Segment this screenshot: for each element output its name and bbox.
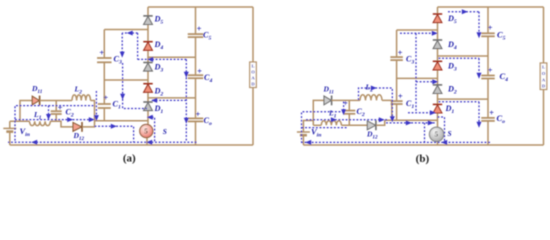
svg-text:D3: D3 <box>447 61 457 72</box>
current path C2 drop (a) <box>46 106 51 120</box>
wire D4-D3 link (b) <box>437 49 439 62</box>
svg-text:C1: C1 <box>406 99 414 110</box>
diode D5 (a) <box>143 14 163 25</box>
wire battery bottom lead (a) <box>9 132 11 145</box>
wire right rail upper (b) <box>543 7 545 63</box>
inductor L2 (b) <box>360 83 382 101</box>
wire battery top lead (b) <box>303 121 313 133</box>
current path C4 top tap (b) <box>439 57 480 59</box>
current path C4 side (b) <box>477 58 482 79</box>
wire L1 rail left (b) <box>313 124 321 126</box>
capacitor C5 (b) <box>481 23 505 42</box>
wire C0 bottom lead (a) <box>195 121 197 145</box>
diode D3 (a) <box>143 63 163 74</box>
transistor S (a) <box>140 124 167 137</box>
svg-text:L2: L2 <box>74 85 83 96</box>
current path C5 side (b) <box>477 12 482 39</box>
current path C2 drop (b) <box>341 102 346 116</box>
wire D3-D2 link (a) <box>147 71 149 84</box>
svg-text:5: 5 <box>144 126 148 135</box>
wire C5-C4 link (a) <box>195 37 197 75</box>
svg-text:D5: D5 <box>447 14 457 25</box>
wire C3 bottom tap (b) <box>397 77 438 79</box>
wire C3-C1 link (a) <box>103 62 105 104</box>
svg-text:C2: C2 <box>357 107 365 118</box>
wire C1 bottom lead (b) <box>396 104 398 120</box>
svg-text:5: 5 <box>434 130 438 139</box>
diode D2 (a) <box>143 84 163 98</box>
capacitor C2 (b) <box>343 98 365 118</box>
wire C2 bottom lead (a) <box>55 114 57 121</box>
current path C0 top tap (b) <box>439 101 480 103</box>
svg-text:C5: C5 <box>497 29 506 41</box>
diode D1 (a) <box>143 102 163 115</box>
svg-text:+: + <box>398 47 403 57</box>
svg-text:D1: D1 <box>154 104 164 115</box>
inductor L2 (a) <box>72 85 91 101</box>
transistor S (b) <box>429 127 451 141</box>
svg-text:(a): (a) <box>123 153 136 165</box>
wire C3 top tap (a) <box>104 29 148 31</box>
current path D12-S loop (b) <box>386 120 436 125</box>
current path C1-D1 path (b) <box>408 110 437 115</box>
svg-text:C1: C1 <box>113 100 121 111</box>
battery Vin (b) <box>297 127 322 139</box>
wire D3-D2 link (b) <box>437 70 439 85</box>
svg-text:C5: C5 <box>203 31 211 42</box>
svg-text:S: S <box>448 129 452 138</box>
wire C4-C0 link (a) <box>195 78 197 118</box>
current path C3 mid vertical (b) <box>415 33 417 113</box>
capacitor C4 (b) <box>481 65 508 83</box>
current path C3 upper arrow (a) <box>120 33 125 58</box>
caption (b) <box>416 153 430 165</box>
svg-text:D4: D4 <box>447 40 457 51</box>
wire D11-L2 rail (b) <box>332 99 360 101</box>
diode D12 (a) <box>73 122 85 142</box>
caption (a) <box>123 153 136 165</box>
current path input top (a) <box>15 106 94 142</box>
wire C3 top lead (a) <box>103 30 105 59</box>
wire D12 link (a) <box>82 121 94 127</box>
capacitor C5 (a) <box>188 24 212 42</box>
wire L2 drop (b) <box>382 100 392 120</box>
wire C0 bottom lead (b) <box>487 121 489 145</box>
svg-text:+: + <box>195 109 200 119</box>
capacitor C0 (b) <box>481 108 505 125</box>
svg-text:O: O <box>251 70 255 75</box>
wire C2 top lead (a) <box>55 101 57 112</box>
current path C4 bottom line (a) <box>151 98 186 103</box>
current path bottom return (a) <box>8 140 197 145</box>
current path bottom return (b) <box>301 140 490 145</box>
current path S loop (a) <box>147 115 155 143</box>
svg-text:+: + <box>197 66 202 76</box>
diode D3 (b) <box>433 61 457 72</box>
wire C3 top tap (b) <box>397 29 438 31</box>
svg-text:C4: C4 <box>500 71 509 83</box>
capacitor C3 (b) <box>390 47 414 65</box>
svg-text:+: + <box>197 24 202 34</box>
svg-text:(b): (b) <box>416 153 430 165</box>
wire D5-D4 link (b) <box>437 23 439 40</box>
wire C5 tap (b) <box>438 55 489 57</box>
diode D1 (b) <box>433 104 455 115</box>
current path C1-D1 path (a) <box>120 63 147 109</box>
wire right rail lower (a) <box>252 88 254 146</box>
diode D11 (b) <box>323 85 335 106</box>
svg-text:+: + <box>488 23 493 33</box>
inductor L1 (a) <box>30 110 51 126</box>
svg-text:C3: C3 <box>406 55 414 66</box>
wire bottom rail (a) <box>10 144 253 146</box>
wire D11-L1 branch (b) <box>313 100 324 125</box>
capacitor C0 (a) <box>188 109 212 127</box>
wire C5 top lead (b) <box>487 7 489 33</box>
current path D12-S loop (a) <box>95 124 134 143</box>
svg-text:Co: Co <box>204 116 212 127</box>
diode D12 (b) <box>366 120 378 140</box>
current path D12-S loop drop (b) <box>424 123 426 142</box>
wire right rail lower (b) <box>543 90 545 146</box>
wire D11 branch (a) <box>20 101 32 122</box>
current path S loop (b) <box>438 117 445 142</box>
current path C3 bottom tap (b) <box>416 79 438 84</box>
wire switch-ground (a) <box>146 137 148 145</box>
svg-text:D11: D11 <box>31 84 43 95</box>
svg-text:+: + <box>103 92 108 102</box>
capacitor C1 (b) <box>391 91 415 110</box>
wire C3 bottom tap (a) <box>104 79 148 81</box>
wire C5 top lead (a) <box>195 7 197 34</box>
wire bottom rail (b) <box>303 144 543 146</box>
current path C5-C4 mid line (a) <box>138 57 187 62</box>
svg-text:+: + <box>398 91 403 101</box>
current path D4 link (a) <box>137 33 139 59</box>
current path L2 loop (b) <box>359 86 395 123</box>
wire diode column top (b) <box>437 7 439 14</box>
svg-text:+: + <box>99 48 104 58</box>
wire top rail (a) <box>148 6 253 8</box>
wire diode column top (a) <box>147 7 149 16</box>
resistor LOAD (b) <box>540 63 547 90</box>
wire C5 tap (a) <box>148 56 196 58</box>
svg-text:Co: Co <box>497 113 506 125</box>
current path L1 line (b) <box>306 117 388 122</box>
current path top rail line (b) <box>448 9 479 14</box>
capacitor C4 (a) <box>188 66 213 84</box>
svg-text:Vin: Vin <box>20 126 30 138</box>
svg-text:D5: D5 <box>154 14 164 25</box>
svg-text:D11: D11 <box>323 85 335 96</box>
svg-text:S: S <box>163 127 167 136</box>
wire switch node (a) <box>95 120 149 122</box>
diode D4 (b) <box>433 40 457 51</box>
wire C4 tap (a) <box>148 97 196 99</box>
svg-text:Vin: Vin <box>311 127 321 139</box>
wire D4-D3 link (a) <box>147 50 149 62</box>
wire D2-D1 link (a) <box>147 92 149 102</box>
wire D1-switch link (a) <box>147 111 149 125</box>
capacitor C1 (a) <box>98 92 121 110</box>
wire switch node (b) <box>385 119 438 121</box>
svg-text:+: + <box>489 108 494 118</box>
resistor LOAD (a) <box>250 62 257 88</box>
capacitor C2 (a) <box>51 103 74 119</box>
wire C1 bottom lead (a) <box>103 108 105 121</box>
svg-text:C3: C3 <box>114 55 122 66</box>
svg-text:O: O <box>542 71 546 76</box>
svg-text:D4: D4 <box>154 40 164 51</box>
svg-text:D2: D2 <box>447 85 457 96</box>
wire D2-D1 link (b) <box>437 94 439 105</box>
svg-text:D12: D12 <box>73 131 85 142</box>
inductor L1 (b) <box>321 109 341 126</box>
svg-text:D2: D2 <box>154 87 164 98</box>
wire D11-L2 rail (a) <box>40 100 72 102</box>
wire C5-C4 link (b) <box>487 36 489 75</box>
wire C3 top lead (b) <box>396 30 398 57</box>
wire C4 tap (b) <box>438 98 489 100</box>
svg-text:D3: D3 <box>154 63 164 74</box>
wire C2 bottom lead (b) <box>348 114 350 126</box>
wire L1 rail (a) <box>10 120 30 122</box>
wire battery bottom lead (b) <box>302 135 304 145</box>
current path input lower line (b) <box>302 127 348 129</box>
svg-text:L1: L1 <box>328 109 337 120</box>
diode D2 (b) <box>433 85 457 96</box>
current path C3 top link (a) <box>122 31 137 36</box>
svg-text:+: + <box>488 65 493 75</box>
battery Vin (a) <box>3 126 30 138</box>
current path L1 line (a) <box>15 117 95 122</box>
current path input left (b) <box>302 112 345 142</box>
wire battery top lead (a) <box>9 121 11 128</box>
wire C2 top lead (b) <box>348 100 350 110</box>
svg-text:L: L <box>251 64 254 69</box>
wire C4-C0 link (b) <box>487 79 489 118</box>
wire right rail upper (a) <box>252 7 254 62</box>
svg-text:L: L <box>542 65 545 70</box>
wire L1-C2 rail (a) <box>50 121 73 127</box>
current path C4 left side (a) <box>184 59 189 142</box>
current path L2 drop arrow (a) <box>94 91 99 121</box>
wire switch-ground (b) <box>437 141 439 145</box>
wire D12 link (b) <box>376 120 385 125</box>
svg-text:D12: D12 <box>366 130 378 141</box>
current path C0 side (b) <box>477 102 482 128</box>
capacitor C3 (a) <box>97 48 122 66</box>
svg-text:C4: C4 <box>204 73 212 84</box>
current path C3 top tap (b) <box>400 31 438 36</box>
diode D11 (a) <box>31 84 43 105</box>
svg-text:+: + <box>58 103 63 113</box>
wire C3-C1 link (b) <box>396 60 398 101</box>
wire D1-switch link (b) <box>437 113 439 127</box>
wire D5-D4 link (a) <box>147 25 149 42</box>
wire L2 drop (a) <box>91 101 95 121</box>
diode D5 (b) <box>433 14 457 25</box>
wire L1-D12 rail (b) <box>341 124 367 126</box>
svg-text:C2: C2 <box>66 108 74 119</box>
diode D4 (a) <box>143 40 163 51</box>
svg-text:D1: D1 <box>445 104 455 115</box>
wire top rail (b) <box>438 6 544 8</box>
